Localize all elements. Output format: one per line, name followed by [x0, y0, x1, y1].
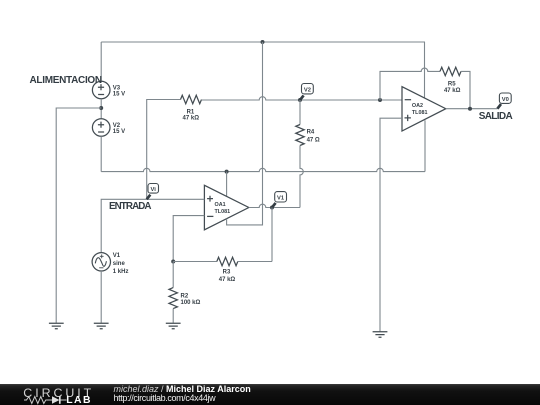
op-amp OA2: [402, 87, 446, 131]
ground G3: [166, 323, 181, 328]
wire R5 left lead with riser and hop over OA2 V+ stub: [380, 68, 440, 100]
wire V1 bottom lead: [100, 271, 102, 323]
svg-text:R2: R2: [181, 293, 189, 299]
node flag Vi: [147, 184, 159, 200]
logo text CIRCUIT: [23, 386, 94, 400]
wire R3 right riser: [271, 208, 273, 262]
voltage source V1 sine: [92, 253, 110, 271]
wire OA2 output: [446, 108, 498, 110]
wire R3 left lead: [173, 261, 217, 263]
node junction feedback R2 R3: [171, 260, 175, 264]
svg-text:R5: R5: [448, 82, 456, 88]
wire R3 right lead: [238, 261, 272, 263]
voltage source V3: [92, 81, 110, 99]
svg-text:15 V: 15 V: [113, 91, 125, 97]
node junction supply midpoint: [99, 106, 103, 110]
ground G2: [94, 323, 109, 328]
wire R2 top lead: [172, 262, 174, 288]
node junction R5 riser on minus wire: [378, 98, 382, 102]
resistor R3: [217, 257, 238, 265]
svg-text:R1: R1: [187, 109, 195, 115]
wire R4 top lead: [299, 100, 301, 125]
svg-text:OA1: OA1: [215, 202, 226, 208]
svg-text:R3: R3: [223, 269, 231, 275]
op-amp OA1: [204, 185, 248, 230]
wire branch to left ground: [56, 108, 101, 323]
wire R1 right to OA2 minus input with hop: [202, 97, 403, 100]
resistor R2: [169, 288, 177, 309]
svg-text:R4: R4: [307, 130, 315, 136]
svg-text:100 kΩ: 100 kΩ: [181, 300, 201, 306]
wire R5 right lead down to output: [461, 71, 470, 108]
node junction R4 top / V2 flag: [298, 98, 302, 102]
wire OA1 V- pin: [226, 172, 228, 197]
node flag V0: [497, 93, 511, 109]
node flag V1: [272, 192, 287, 208]
svg-text:47 Ω: 47 Ω: [307, 137, 320, 143]
wire -15V rail with hops: [101, 168, 425, 171]
ground G1: [49, 323, 64, 328]
logo text LAB: [66, 395, 92, 405]
node junction output V1 flag R3 riser: [270, 206, 274, 210]
svg-text:Vi: Vi: [151, 187, 157, 193]
svg-text:47 kΩ: 47 kΩ: [219, 277, 236, 283]
svg-text:V1: V1: [277, 196, 285, 202]
svg-text:47 kΩ: 47 kΩ: [444, 88, 461, 94]
svg-text:OA2: OA2: [412, 103, 423, 109]
wire V2 bottom lead: [100, 136, 102, 171]
svg-text:TL081: TL081: [412, 110, 428, 116]
svg-text:47 kΩ: 47 kΩ: [183, 116, 200, 122]
footer url line: [114, 393, 216, 403]
wire top +15V rail: [101, 41, 425, 43]
wire OA1 minus input to feedback node: [173, 216, 204, 262]
resistor R4: [296, 125, 304, 146]
logo resistor and diode symbol: [22, 395, 92, 405]
svg-text:sine: sine: [113, 261, 126, 267]
svg-text:V0: V0: [502, 97, 509, 103]
resistor R5: [440, 67, 461, 75]
wire OA1 output with hop: [249, 204, 300, 207]
wire ENTRADA node V1 top to OA1 plus input: [101, 199, 204, 252]
wire R1 left lead and riser down to Vi node: [147, 100, 181, 200]
footer author line: [114, 384, 251, 394]
svg-text:TL081: TL081: [215, 209, 231, 215]
svg-text:ENTRADA: ENTRADA: [109, 201, 151, 212]
node junction top rail to OA1 V+ riser: [261, 40, 265, 44]
svg-text:V1: V1: [113, 253, 121, 259]
wire V3 to V2: [100, 99, 102, 119]
ground G4: [373, 332, 388, 337]
footer bar: [0, 384, 540, 405]
wire OA1 V+ pin to +15 riser: [227, 42, 263, 225]
node flag V2: [300, 84, 313, 101]
resistor R1: [181, 95, 202, 103]
wire R2 bottom lead: [172, 309, 174, 323]
wire OA2 V+ stub: [424, 42, 426, 98]
node junction R5 right on output: [468, 107, 472, 111]
svg-text:ALIMENTACION: ALIMENTACION: [30, 75, 102, 86]
svg-text:V2: V2: [304, 88, 311, 94]
svg-text:1 kHz: 1 kHz: [113, 269, 129, 275]
wire OA2 V- stub: [424, 120, 426, 171]
svg-text:SALIDA: SALIDA: [479, 111, 513, 122]
wire R4 bottom riser with hop over -15 rail: [300, 146, 303, 208]
svg-text:15 V: 15 V: [113, 129, 125, 135]
wire V3 top lead: [100, 42, 102, 81]
node junction -15 rail to OA1 V- pin: [225, 170, 229, 174]
wire OA2 plus input riser to ground: [380, 118, 402, 331]
voltage source V2: [92, 119, 110, 137]
